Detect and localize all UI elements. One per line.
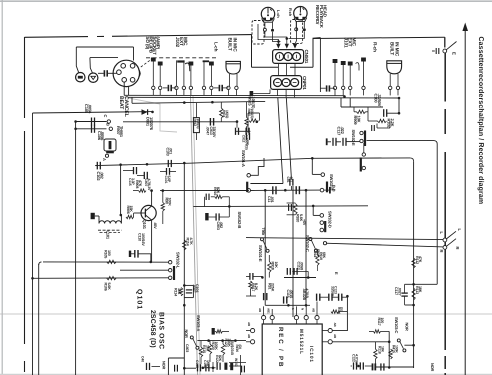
svg-text:SW103-A: SW103-A xyxy=(196,315,201,332)
svg-text:BIAS OSC: BIAS OSC xyxy=(158,312,165,350)
svg-text:SW102-E: SW102-E xyxy=(351,130,356,147)
svg-text:(D): (D) xyxy=(238,345,242,349)
svg-text:CANCEL: CANCEL xyxy=(123,96,129,118)
svg-text:45V: 45V xyxy=(153,223,157,230)
svg-text:4.7/16V: 4.7/16V xyxy=(354,354,358,366)
svg-text:L-ch: L-ch xyxy=(214,42,219,52)
svg-text:4.7/1B: 4.7/1B xyxy=(305,289,309,299)
svg-text:.0027: .0027 xyxy=(397,287,401,296)
svg-text:MIC: MIC xyxy=(182,37,188,46)
svg-text:C40: C40 xyxy=(141,356,145,362)
svg-text:.082: .082 xyxy=(100,172,105,180)
svg-text:C104: C104 xyxy=(195,284,199,293)
svg-text:IN MIC: IN MIC xyxy=(232,38,238,53)
svg-text:Q101: Q101 xyxy=(142,220,147,230)
svg-text:15K: 15K xyxy=(129,206,133,213)
svg-text:L-ch: L-ch xyxy=(276,10,281,18)
svg-text:Cassettenrecorderschaltplan /: Cassettenrecorderschaltplan / Recorder d… xyxy=(477,37,485,205)
svg-text:8.2K: 8.2K xyxy=(254,283,258,291)
svg-text:5.6K: 5.6K xyxy=(107,283,111,291)
svg-text:1S2076: 1S2076 xyxy=(149,117,154,131)
svg-text:100: 100 xyxy=(107,250,111,256)
svg-text:N: N xyxy=(301,308,305,310)
svg-text:10K: 10K xyxy=(356,116,361,123)
svg-text:100K: 100K xyxy=(394,345,398,353)
svg-text:HEAD: HEAD xyxy=(322,5,327,17)
svg-text:SW101-E: SW101-E xyxy=(258,245,263,262)
svg-text:4.7K: 4.7K xyxy=(189,238,193,246)
svg-text:225K: 225K xyxy=(271,283,275,292)
svg-text:R: R xyxy=(439,250,444,253)
svg-text:+6V: +6V xyxy=(302,219,306,226)
svg-text:.082: .082 xyxy=(219,222,223,229)
svg-text:47K: 47K xyxy=(138,180,142,187)
svg-text:SW103-C: SW103-C xyxy=(394,317,399,334)
svg-text:BUILT: BUILT xyxy=(226,38,232,51)
svg-text:L101: L101 xyxy=(106,231,111,240)
svg-text:MIC: MIC xyxy=(350,38,356,47)
svg-text:82K: 82K xyxy=(218,355,222,362)
svg-text:REC / PB: REC / PB xyxy=(277,327,284,368)
svg-text:2.2K: 2.2K xyxy=(390,119,395,127)
svg-text:10K(S): 10K(S) xyxy=(196,119,200,129)
svg-text:681: 681 xyxy=(289,177,293,183)
svg-text:(AMP): (AMP) xyxy=(156,37,161,50)
svg-text:SW102-D: SW102-D xyxy=(328,211,333,228)
svg-text:.001: .001 xyxy=(270,196,274,203)
svg-text:NOR: NOR xyxy=(184,330,189,339)
svg-text:.0015: .0015 xyxy=(289,290,293,299)
svg-text:47K: 47K xyxy=(418,256,422,263)
svg-text:5.6P: 5.6P xyxy=(167,176,171,183)
svg-text:100K: 100K xyxy=(168,198,172,207)
svg-text:R-ch: R-ch xyxy=(373,42,378,52)
svg-text:3.3P: 3.3P xyxy=(131,178,135,185)
svg-text:68K: 68K xyxy=(322,252,326,259)
svg-text:.022: .022 xyxy=(340,127,345,135)
svg-text:TH901: TH901 xyxy=(119,126,124,138)
svg-text:B-B: B-B xyxy=(331,185,336,192)
svg-text:SW101-A: SW101-A xyxy=(241,150,246,167)
svg-text:Q101: Q101 xyxy=(136,289,143,310)
svg-text:SW102-B: SW102-B xyxy=(237,212,242,229)
svg-text:SW102-L: SW102-L xyxy=(175,252,180,269)
svg-text:M51521L: M51521L xyxy=(298,329,304,355)
svg-text:NOR: NOR xyxy=(161,361,166,370)
svg-text:BEAT: BEAT xyxy=(118,96,124,110)
svg-text:2SC458 (D): 2SC458 (D) xyxy=(149,310,156,348)
svg-text:R: R xyxy=(455,247,460,250)
svg-text:AB1: AB1 xyxy=(267,308,271,314)
svg-text:NOR: NOR xyxy=(404,323,409,332)
svg-text:33/16V: 33/16V xyxy=(212,127,216,138)
svg-text:SW103-B: SW103-B xyxy=(230,340,234,355)
svg-text:100K: 100K xyxy=(214,342,218,351)
svg-text:CNP01: CNP01 xyxy=(302,76,307,90)
svg-text:(S): (S) xyxy=(340,307,344,311)
svg-text:C403: C403 xyxy=(185,344,189,352)
svg-text:E: E xyxy=(452,52,457,55)
svg-text:10K: 10K xyxy=(274,262,278,269)
svg-text:IN MIC: IN MIC xyxy=(394,42,400,57)
svg-text:T9Bt: T9Bt xyxy=(261,228,265,237)
svg-text:100: 100 xyxy=(380,318,384,324)
svg-text:10K(S): 10K(S) xyxy=(251,97,256,110)
svg-text:R-ch: R-ch xyxy=(288,8,293,17)
svg-text:SW102-C: SW102-C xyxy=(305,235,310,252)
svg-text:C: C xyxy=(103,115,108,118)
svg-text:1K(S): 1K(S) xyxy=(225,110,229,118)
svg-text:18K: 18K xyxy=(381,346,385,353)
svg-text:.0068: .0068 xyxy=(300,262,304,271)
svg-text:BUILT: BUILT xyxy=(388,42,394,55)
svg-text:10K: 10K xyxy=(177,288,181,295)
svg-text:A: A xyxy=(102,158,107,161)
svg-text:.001: .001 xyxy=(169,148,173,155)
svg-text:.0056: .0056 xyxy=(87,104,92,114)
svg-text:NOR: NOR xyxy=(430,363,435,372)
svg-text:CNS01: CNS01 xyxy=(304,50,309,64)
svg-text:18K: 18K xyxy=(418,286,422,293)
svg-text:100/16V: 100/16V xyxy=(141,233,145,246)
svg-text:4.7/6.3V: 4.7/6.3V xyxy=(147,179,151,192)
svg-text:B: B xyxy=(106,123,111,126)
svg-text:IC101: IC101 xyxy=(308,346,314,363)
svg-text:C123: C123 xyxy=(334,286,338,294)
svg-text:.33/50V: .33/50V xyxy=(377,94,382,107)
